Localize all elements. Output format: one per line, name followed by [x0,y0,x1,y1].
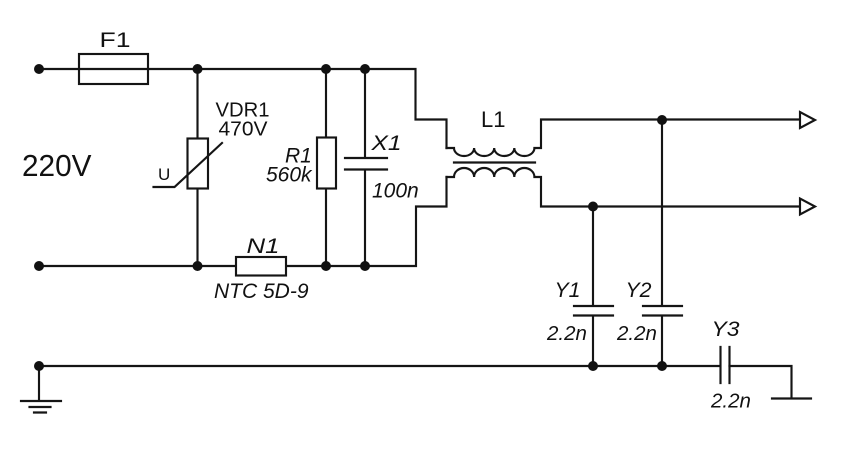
svg-text:100n: 100n [372,180,419,203]
svg-text:F1: F1 [100,29,131,52]
svg-text:2.2n: 2.2n [710,390,751,413]
svg-text:220V: 220V [22,148,92,183]
svg-text:X1: X1 [370,132,401,155]
svg-text:U: U [158,165,170,184]
svg-text:NTC 5D-9: NTC 5D-9 [214,280,309,303]
svg-text:L1: L1 [481,107,505,132]
svg-text:Y2: Y2 [626,279,652,302]
svg-text:560k: 560k [266,164,313,187]
svg-text:2.2n: 2.2n [546,322,587,345]
svg-text:N1: N1 [247,235,280,258]
svg-text:2.2n: 2.2n [616,322,657,345]
svg-text:470V: 470V [219,119,269,141]
svg-text:Y3: Y3 [712,318,740,341]
svg-text:Y1: Y1 [555,279,581,302]
